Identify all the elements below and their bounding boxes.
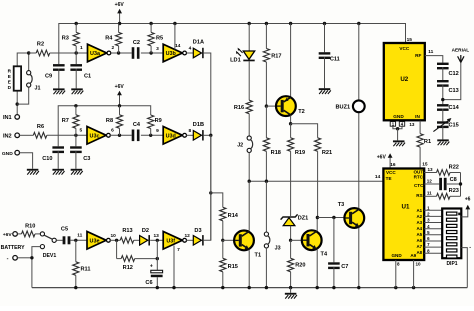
wire U1 A7 to DIP1 pin 7 bbox=[424, 246, 442, 248]
wire C15 to ground bbox=[442, 126, 444, 140]
capacitor C8 bbox=[439, 178, 442, 190]
svg-text:+6: +6 bbox=[465, 197, 471, 203]
svg-text:C1: C1 bbox=[84, 73, 91, 79]
wire GND terminal to ground bbox=[20, 153, 33, 169]
svg-text:D2: D2 bbox=[142, 228, 149, 234]
svg-text:A9: A9 bbox=[410, 253, 416, 258]
node R12 branch bbox=[115, 239, 118, 242]
svg-text:+6V: +6V bbox=[115, 2, 125, 8]
svg-text:13: 13 bbox=[154, 233, 160, 239]
svg-text:R22: R22 bbox=[449, 165, 459, 171]
node TE/R18/J3 bbox=[265, 180, 268, 183]
capacitor C15 (trimmer) bbox=[437, 121, 449, 123]
svg-text:C7: C7 bbox=[341, 264, 348, 270]
wire R1 to U1 pin15 bbox=[419, 147, 421, 168]
wire U2 gnd join bbox=[393, 126, 402, 129]
node C8 common bbox=[459, 182, 462, 185]
svg-text:C12: C12 bbox=[448, 71, 458, 77]
svg-text:9: 9 bbox=[156, 128, 159, 134]
svg-text:3: 3 bbox=[156, 46, 159, 52]
wire C2 to U3b bbox=[141, 52, 163, 54]
wire R13 to D2 bbox=[134, 239, 140, 241]
node T3 emitter/rail bbox=[357, 286, 360, 289]
jumper J2 bbox=[247, 136, 251, 140]
node C7 top bbox=[332, 216, 335, 219]
svg-text:U3d: U3d bbox=[166, 133, 176, 139]
ground symbol on rail bbox=[290, 288, 292, 293]
resistor R16 bbox=[246, 100, 252, 114]
svg-text:R3: R3 bbox=[62, 36, 69, 42]
svg-text:R13: R13 bbox=[122, 228, 132, 234]
wire D3 output up bbox=[204, 135, 211, 240]
svg-text:R11: R11 bbox=[81, 267, 91, 273]
svg-text:J1: J1 bbox=[35, 86, 41, 92]
svg-text:GND: GND bbox=[2, 151, 13, 157]
capacitor C5 bbox=[63, 236, 66, 244]
svg-text:E: E bbox=[8, 74, 11, 79]
node R11 top bbox=[74, 239, 77, 242]
capacitor C14 bbox=[437, 104, 449, 106]
node R17 top bbox=[265, 22, 268, 25]
wire R22/C8/R23 common bbox=[460, 173, 462, 197]
svg-text:DEV1: DEV1 bbox=[43, 253, 57, 259]
svg-text:13: 13 bbox=[427, 167, 433, 172]
svg-text:10: 10 bbox=[111, 233, 117, 239]
wire T1 collector bbox=[248, 181, 250, 230]
zener diode DZ1 bbox=[283, 218, 295, 226]
wire U1 pin8 bbox=[395, 260, 397, 288]
svg-text:J2: J2 bbox=[237, 143, 243, 149]
wire U3f pin7 gnd bbox=[173, 246, 175, 288]
ground below C10 bbox=[52, 169, 64, 171]
wire R16 to J2 bbox=[248, 114, 250, 136]
LED LD1 bbox=[243, 51, 254, 59]
capacitor C1 bbox=[75, 53, 77, 64]
svg-text:E: E bbox=[8, 79, 11, 84]
wire R19 to DZ1 bbox=[290, 151, 292, 216]
wire T3 collector to BUZ1 bbox=[358, 112, 360, 208]
wire U2 gnd drop bbox=[397, 129, 399, 141]
node U3f pin7/rail bbox=[172, 286, 175, 289]
svg-text:+6V: +6V bbox=[377, 154, 387, 160]
wire R17 to T2 base bbox=[265, 62, 267, 106]
diode D1A bbox=[193, 48, 201, 58]
terminal GND input bbox=[15, 150, 20, 155]
svg-text:A6: A6 bbox=[416, 238, 422, 243]
wire U3b pin 14 VCC bbox=[174, 24, 176, 50]
wire C8 right bbox=[447, 183, 461, 185]
svg-text:R18: R18 bbox=[271, 150, 281, 156]
wire U1 A4 to DIP1 pin 4 bbox=[424, 228, 442, 230]
resistor R3 bbox=[75, 24, 77, 33]
capacitor C6 (electrolytic) bbox=[151, 270, 163, 273]
node U3a input bbox=[75, 51, 78, 54]
resistor R17 bbox=[263, 49, 269, 63]
wire U1 A5 to DIP1 pin 5 bbox=[424, 234, 442, 236]
wire U3f out to D3 bbox=[186, 239, 193, 241]
svg-text:T4: T4 bbox=[321, 251, 328, 257]
svg-text:R8: R8 bbox=[106, 118, 113, 124]
DIP1 plus mark bbox=[458, 213, 461, 216]
svg-text:A7: A7 bbox=[416, 244, 422, 249]
ground below GND terminal bbox=[27, 169, 38, 171]
wire C4 to U3d bbox=[141, 134, 163, 136]
svg-text:IN2: IN2 bbox=[3, 134, 12, 140]
wire TE line to U1 pin 14 bbox=[249, 180, 383, 182]
wire U1 A3 to DIP1 pin 3 bbox=[424, 222, 442, 224]
wire branch to R14 bbox=[211, 193, 223, 207]
wire U1 pin10 bbox=[413, 260, 415, 288]
svg-text:D1B: D1B bbox=[193, 122, 204, 128]
svg-text:R15: R15 bbox=[228, 264, 238, 270]
svg-text:-: - bbox=[7, 256, 9, 262]
svg-text:R14: R14 bbox=[228, 213, 239, 219]
svg-text:R12: R12 bbox=[123, 265, 133, 271]
node LD1 top bbox=[248, 22, 251, 25]
diode D3 bbox=[193, 236, 201, 246]
wire U1 A8 to DIP1 pin 8 bbox=[424, 252, 442, 254]
wire T1 emitter bbox=[248, 250, 250, 287]
svg-text:A2: A2 bbox=[416, 214, 422, 219]
node U3b pin14 bbox=[173, 22, 176, 25]
resistor R10 bbox=[22, 231, 36, 237]
svg-text:AERIAL: AERIAL bbox=[452, 48, 470, 53]
svg-text:14: 14 bbox=[175, 43, 181, 49]
wire D1A output down bbox=[204, 53, 211, 135]
wire DIP1 to ground rail bbox=[461, 248, 467, 288]
svg-text:DZ1: DZ1 bbox=[298, 215, 309, 221]
node C7/rail bbox=[332, 286, 335, 289]
U2 gnd pin boxes 1 4 13 bbox=[390, 122, 395, 127]
svg-text:CTC: CTC bbox=[414, 183, 424, 188]
svg-text:R20: R20 bbox=[295, 263, 305, 269]
reed switch REED bbox=[14, 66, 21, 90]
svg-text:R2: R2 bbox=[37, 42, 44, 48]
wire J2 to TE wire bbox=[248, 153, 250, 182]
wire J3 to ground rail bbox=[265, 248, 267, 288]
svg-text:C11: C11 bbox=[330, 57, 340, 63]
IC U1 bbox=[383, 169, 424, 261]
wire ground rail bottom bbox=[32, 287, 467, 289]
wire +6V rail top bbox=[59, 24, 406, 65]
svg-text:C13: C13 bbox=[448, 88, 458, 94]
svg-text:C6: C6 bbox=[145, 280, 152, 286]
node R5 top bbox=[149, 22, 152, 25]
svg-text:R10: R10 bbox=[25, 224, 35, 230]
resistor R6 bbox=[33, 132, 47, 138]
terminal battery minus bbox=[13, 255, 18, 260]
node R12/C6 bbox=[156, 257, 159, 260]
svg-text:16: 16 bbox=[390, 162, 396, 168]
node aerial junction bbox=[441, 98, 444, 101]
svg-text:RTC: RTC bbox=[414, 174, 424, 179]
svg-text:C10: C10 bbox=[42, 156, 52, 162]
inverter U3b bbox=[163, 44, 182, 62]
svg-text:T3: T3 bbox=[338, 202, 345, 208]
svg-text:R6: R6 bbox=[37, 124, 44, 130]
svg-text:R21: R21 bbox=[322, 150, 332, 156]
svg-text:7: 7 bbox=[177, 247, 180, 253]
svg-text:BATTERY: BATTERY bbox=[1, 245, 25, 251]
node J3/rail bbox=[265, 286, 268, 289]
svg-text:U3c: U3c bbox=[90, 133, 100, 139]
wire T4 base bbox=[291, 239, 302, 241]
svg-text:11: 11 bbox=[427, 191, 432, 196]
wire C13 to node bbox=[442, 84, 444, 104]
transistor T3 (NPN) bbox=[344, 208, 364, 228]
svg-text:C3: C3 bbox=[83, 156, 90, 162]
wire reed branch bbox=[17, 53, 29, 115]
svg-text:T1: T1 bbox=[255, 252, 262, 258]
wire DIP1 to +6 bbox=[461, 209, 468, 217]
svg-text:BUZ1: BUZ1 bbox=[335, 105, 350, 111]
svg-text:LD1: LD1 bbox=[230, 58, 241, 64]
wire diode OR vertical bbox=[210, 135, 212, 240]
wire T1 base bbox=[223, 239, 235, 241]
diode D2 bbox=[140, 236, 148, 246]
svg-text:U3a: U3a bbox=[90, 51, 101, 57]
wire U3b out to D1A bbox=[186, 52, 193, 54]
wire C5 to U3e bbox=[70, 239, 87, 241]
wire LD1 column top bbox=[248, 24, 250, 52]
capacitor C11 bbox=[324, 24, 326, 53]
wire R21 to T4 collector node bbox=[317, 151, 319, 217]
node U1 pin10/rail bbox=[412, 286, 415, 289]
wire TE to J3 bbox=[265, 181, 267, 232]
svg-text:10: 10 bbox=[415, 261, 421, 266]
node R5 bottom bbox=[149, 51, 152, 54]
svg-text:U3f: U3f bbox=[166, 238, 175, 244]
node T1 emitter/rail bbox=[248, 286, 251, 289]
wire R22 right bbox=[450, 172, 461, 174]
node J1 top bbox=[27, 51, 30, 54]
jumper J1 bbox=[28, 53, 30, 71]
wire U2 pin2 to R1 bbox=[419, 121, 421, 134]
node R15/rail bbox=[221, 286, 224, 289]
wire U1 A1 to DIP1 pin 1 bbox=[424, 209, 442, 211]
node diode OR junction bbox=[209, 134, 212, 137]
svg-text:GND: GND bbox=[391, 253, 402, 258]
svg-text:11: 11 bbox=[428, 49, 433, 55]
node T4 emitter/rail bbox=[316, 286, 319, 289]
svg-text:RS: RS bbox=[416, 193, 422, 198]
svg-text:R1: R1 bbox=[424, 139, 431, 145]
node U3f input bbox=[156, 239, 159, 242]
svg-text:C4: C4 bbox=[133, 122, 141, 128]
svg-text:A4: A4 bbox=[416, 226, 422, 231]
wire +6V rail row2 bbox=[58, 106, 151, 147]
transistor T1 (NPN) bbox=[234, 231, 254, 251]
wire aerial drop bbox=[443, 62, 461, 99]
wire C14-C15 bbox=[442, 109, 444, 122]
svg-text:D3: D3 bbox=[194, 228, 201, 234]
svg-text:DIP1: DIP1 bbox=[446, 261, 457, 267]
svg-text:A5: A5 bbox=[416, 232, 422, 237]
node R11/rail bbox=[74, 286, 77, 289]
capacitor C10 bbox=[52, 146, 64, 148]
svg-text:R9: R9 bbox=[155, 118, 162, 124]
svg-text:4: 4 bbox=[189, 45, 192, 51]
wire C6 to rail bbox=[156, 277, 158, 287]
wire DZ1 to T4 base node bbox=[290, 226, 292, 241]
wire U1 A6 to DIP1 pin 6 bbox=[424, 240, 442, 242]
capacitor C4 bbox=[132, 130, 135, 142]
node T2 collector rail bbox=[289, 22, 292, 25]
node minus junction bbox=[30, 256, 33, 259]
ground below C15 bbox=[437, 139, 449, 141]
resistor R7 bbox=[75, 106, 77, 115]
wire J1 bottom link bbox=[17, 87, 29, 104]
wire T2 emitter bbox=[290, 116, 292, 124]
IC U2 bbox=[384, 43, 425, 120]
svg-text:A8: A8 bbox=[416, 250, 422, 255]
wire U1 pin11 to R23 bbox=[424, 195, 436, 197]
svg-text:R17: R17 bbox=[271, 53, 281, 59]
capacitor C3 bbox=[75, 135, 77, 146]
jumper J3 bbox=[264, 232, 268, 236]
wire U3c output bbox=[110, 134, 132, 136]
svg-text:U3e: U3e bbox=[90, 238, 100, 244]
resistor R23 bbox=[437, 193, 451, 199]
svg-text:R7: R7 bbox=[62, 118, 69, 124]
svg-text:VCC: VCC bbox=[386, 170, 396, 175]
ground below C3 bbox=[71, 169, 83, 171]
wire LD1 to R16 bbox=[248, 61, 250, 100]
node T2 emitter junction bbox=[289, 122, 292, 125]
capacitor C9 bbox=[53, 64, 65, 66]
node TE/J2/T1 bbox=[248, 180, 251, 183]
svg-text:C15: C15 bbox=[448, 123, 458, 129]
DIP switch DIP1 bbox=[442, 209, 461, 259]
terminal IN1 bbox=[15, 115, 20, 120]
wire T4 collector to T3 base bbox=[317, 217, 344, 219]
node T2 base bbox=[265, 104, 268, 107]
node R4 bottom bbox=[117, 51, 120, 54]
svg-text:8: 8 bbox=[397, 261, 400, 266]
svg-text:U3b: U3b bbox=[166, 51, 177, 57]
svg-text:13: 13 bbox=[409, 122, 415, 127]
wire DEV1 to minus rail bbox=[32, 247, 40, 288]
svg-text:A3: A3 bbox=[416, 220, 422, 225]
svg-text:R19: R19 bbox=[295, 150, 305, 156]
node C6/rail bbox=[156, 286, 159, 289]
svg-text:12: 12 bbox=[185, 233, 191, 239]
wire rail to R17 bbox=[265, 24, 267, 49]
ground below C1 bbox=[71, 88, 83, 90]
resistor R4 bbox=[118, 24, 120, 33]
resistor R14 bbox=[220, 207, 226, 221]
svg-text:-: - bbox=[469, 245, 471, 251]
svg-text:D1A: D1A bbox=[193, 40, 204, 46]
svg-text:15: 15 bbox=[407, 37, 413, 43]
resistor R21 bbox=[315, 138, 321, 152]
svg-text:12: 12 bbox=[427, 178, 433, 183]
node +6V/R8 bbox=[118, 104, 121, 107]
node C11 top bbox=[323, 22, 326, 25]
svg-text:GND: GND bbox=[393, 114, 404, 119]
+6V supply arrow U1 bbox=[389, 157, 391, 169]
diode D1B bbox=[193, 131, 201, 141]
node T4 base bbox=[289, 239, 292, 242]
wire U3a output bbox=[111, 52, 132, 54]
inverter U3e bbox=[87, 232, 106, 250]
terminal IN2 bbox=[15, 133, 20, 138]
wire node13 to C6 bbox=[156, 240, 158, 270]
node R3 top bbox=[75, 22, 78, 25]
node T4 collector bbox=[316, 216, 319, 219]
wire D1B output bbox=[204, 134, 211, 136]
node R20/rail bbox=[289, 286, 292, 289]
wire T2 collector to rail bbox=[290, 24, 292, 97]
resistor R15 bbox=[222, 240, 224, 258]
svg-text:+: + bbox=[150, 263, 153, 269]
ground below C11 bbox=[319, 88, 331, 90]
+6V supply arrow row2 bbox=[119, 94, 121, 106]
svg-text:8: 8 bbox=[188, 128, 191, 134]
wire minus terminal bbox=[17, 257, 32, 259]
wire IN2 to R6 bbox=[20, 134, 34, 136]
resistor R9 bbox=[148, 115, 154, 129]
svg-text:U2: U2 bbox=[400, 76, 408, 83]
capacitor C13 bbox=[437, 80, 449, 82]
svg-text:11: 11 bbox=[77, 232, 82, 238]
resistor R8 bbox=[119, 106, 121, 115]
wire R12 to C6 column bbox=[135, 258, 158, 260]
wire T4 collector bbox=[316, 218, 318, 232]
resistor R19 bbox=[290, 124, 292, 138]
wire emitter to R21 branch bbox=[291, 124, 318, 138]
inverter U3c bbox=[87, 127, 106, 145]
wire R2 to U3a input bbox=[50, 52, 88, 54]
resistor R20 bbox=[290, 240, 292, 258]
node T1 base bbox=[221, 239, 224, 242]
svg-text:1: 1 bbox=[80, 45, 83, 51]
node U3c input bbox=[74, 134, 77, 137]
resistor R12 bbox=[117, 258, 122, 260]
wire T2 base bbox=[266, 105, 276, 107]
capacitor C12 bbox=[437, 63, 449, 65]
terminal +6V battery bbox=[13, 232, 18, 237]
svg-text:2: 2 bbox=[111, 45, 114, 51]
wire T4 emitter bbox=[316, 250, 318, 288]
resistor R1 bbox=[417, 134, 423, 148]
inverter U3d bbox=[163, 127, 182, 145]
wire U3e out bbox=[110, 239, 120, 241]
node R7 top bbox=[74, 104, 77, 107]
transistor T2 (PNP) bbox=[276, 96, 296, 116]
wire R23 right bbox=[450, 195, 461, 197]
svg-text:C9: C9 bbox=[45, 73, 52, 79]
wire C12-C13 bbox=[442, 67, 444, 80]
wire U3d out to D1B bbox=[186, 134, 193, 136]
wire U2 RF pin 11 bbox=[425, 56, 443, 63]
svg-text:R16: R16 bbox=[234, 105, 244, 111]
resistor R13 bbox=[120, 237, 134, 243]
capacitor C7 bbox=[333, 218, 335, 263]
wire U1 A2 to DIP1 pin 2 bbox=[424, 215, 442, 217]
svg-text:C5: C5 bbox=[61, 227, 68, 233]
svg-text:6: 6 bbox=[111, 128, 114, 134]
wire R10 to DEV1 bbox=[35, 233, 40, 235]
svg-text:C14: C14 bbox=[448, 105, 459, 111]
svg-text:5: 5 bbox=[79, 127, 82, 133]
node BUZ1 top bbox=[357, 22, 360, 25]
resistor R22 bbox=[437, 170, 451, 176]
node U1 pin8/rail bbox=[394, 286, 397, 289]
switch DEV1 bbox=[40, 232, 44, 236]
wire D2 to U3f bbox=[150, 239, 163, 241]
buzzer BUZ1 bbox=[358, 24, 360, 101]
